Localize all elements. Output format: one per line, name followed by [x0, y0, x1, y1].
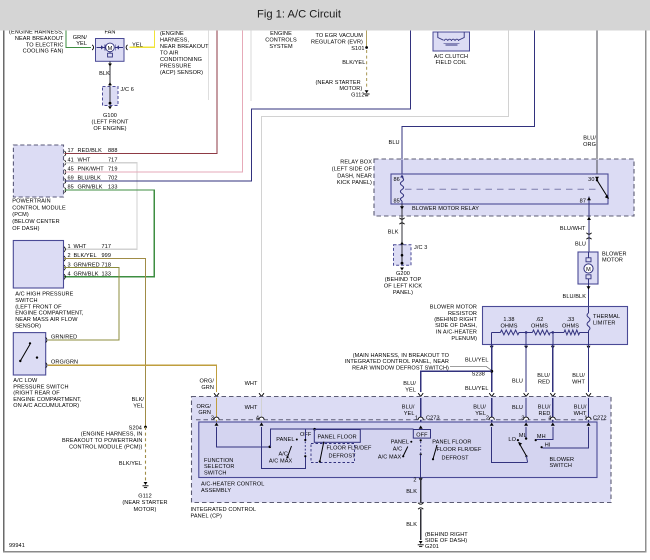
svg-text:TO EGR VACUUM: TO EGR VACUUM — [315, 33, 363, 39]
svg-text:BREAKOUT TO POWERTRAIN: BREAKOUT TO POWERTRAIN — [62, 438, 142, 444]
wire BLU stub inside relay box — [401, 160, 403, 175]
svg-text:NEAR MASS AIR FLOW: NEAR MASS AIR FLOW — [15, 317, 78, 323]
relay internal dashed link — [405, 188, 596, 190]
svg-text:MOTOR): MOTOR) — [339, 86, 362, 92]
svg-text:J/C 6: J/C 6 — [121, 87, 134, 93]
PCM pin 69 BLU/BLK 702 — [65, 178, 66, 183]
svg-text:HARNESS,: HARNESS, — [160, 38, 189, 44]
wire WHT 717 PCM 41 to HPS 1 — [65, 163, 138, 250]
svg-text:BLU/YEL: BLU/YEL — [465, 358, 488, 364]
resistor R3 .33 ohms — [564, 330, 580, 335]
svg-text:86: 86 — [394, 177, 400, 183]
svg-text:99941: 99941 — [9, 543, 25, 549]
junction block J/C 3 — [394, 245, 412, 266]
wire BLK/YEL dashed to G112 — [145, 427, 147, 481]
svg-text:WHT: WHT — [245, 381, 258, 387]
svg-text:NEAR BREAKOUT: NEAR BREAKOUT — [15, 36, 64, 42]
svg-text:BLOWER: BLOWER — [602, 251, 627, 257]
svg-text:BLU/: BLU/ — [538, 405, 551, 411]
svg-text:BLU/YEL: BLU/YEL — [465, 386, 488, 392]
svg-text:4: 4 — [256, 415, 259, 421]
svg-text:SYSTEM: SYSTEM — [269, 44, 293, 50]
svg-text:2: 2 — [486, 415, 489, 421]
page right border — [645, 31, 647, 553]
integrated control panel (ICP) dashed box — [192, 397, 612, 503]
svg-text:INTEGRATED CONTROL: INTEGRATED CONTROL — [191, 507, 257, 513]
svg-text:A/C: A/C — [393, 446, 403, 452]
bus junction nodes — [525, 331, 528, 334]
A/C-heater control assembly box — [199, 422, 597, 478]
svg-text:C273: C273 — [426, 415, 440, 421]
svg-text:KICK PANEL): KICK PANEL) — [337, 180, 372, 186]
wire BLU/RED resistor tap3 to ICP pin 4 — [552, 345, 554, 393]
svg-text:A/C LOW: A/C LOW — [13, 378, 38, 384]
selector 2 OFF box — [413, 430, 430, 439]
svg-text:A/C MAX: A/C MAX — [269, 459, 293, 465]
svg-text:BLU/: BLU/ — [402, 405, 415, 411]
svg-text:A/C HIGH PRESSURE: A/C HIGH PRESSURE — [15, 292, 73, 298]
ground G200 — [400, 268, 404, 271]
svg-text:85: 85 — [394, 199, 400, 205]
PCM pin 85 GRN/BLK 133 — [65, 187, 66, 192]
svg-text:THERMAL: THERMAL — [593, 314, 620, 320]
wire BLK relay 85 to J/C 3 — [401, 204, 403, 245]
svg-text:C272: C272 — [593, 415, 607, 421]
svg-text:ASSEMBLY: ASSEMBLY — [201, 488, 231, 494]
svg-text:BLU/: BLU/ — [537, 373, 550, 379]
svg-text:RELAY BOX: RELAY BOX — [340, 160, 372, 166]
svg-text:J/C 3: J/C 3 — [414, 245, 427, 251]
svg-text:S238: S238 — [472, 372, 485, 378]
svg-text:BLU/BLK: BLU/BLK — [563, 294, 587, 300]
ground G201 — [419, 541, 423, 544]
resistor bus — [492, 331, 501, 333]
svg-text:GRN/RED: GRN/RED — [51, 334, 77, 340]
svg-text:DEFROST: DEFROST — [442, 456, 470, 462]
wire BLU/BLK blower motor to resistor — [588, 284, 590, 307]
wire WHT return path — [262, 427, 306, 469]
connector pin bumps — [214, 417, 219, 420]
svg-text:YEL: YEL — [475, 411, 486, 417]
page bottom border — [3, 551, 646, 553]
svg-text:LO: LO — [508, 437, 516, 443]
wire BLU/WHT thermal limiter to ICP pin 1 C272 — [588, 345, 590, 393]
svg-text:LIMITER: LIMITER — [593, 320, 616, 326]
svg-text:1.38: 1.38 — [503, 317, 514, 323]
relay coil — [400, 175, 404, 178]
ORG/GRN entry mark at ICP — [214, 393, 219, 396]
PCM pin 17 RED/BLK 888 — [65, 151, 66, 156]
relay pin 87 stub — [588, 197, 590, 205]
svg-text:G100: G100 — [103, 113, 117, 119]
wire BLK/YEL 999 HPS 2 to S204 — [64, 259, 146, 428]
wire BLU/WHT relay 87 to blower motor — [588, 204, 590, 252]
svg-text:BLU/WHT: BLU/WHT — [560, 226, 586, 232]
HPS pin 4 GRN/BLK 133 — [64, 274, 65, 279]
svg-text:TO AIR: TO AIR — [160, 51, 179, 57]
svg-text:OF DASH): OF DASH) — [12, 226, 39, 232]
svg-text:BLU/: BLU/ — [403, 381, 416, 387]
PCM pin 41 WHT 717 — [65, 160, 66, 165]
svg-text:WHT: WHT — [245, 405, 258, 411]
svg-text:BLU/: BLU/ — [583, 136, 596, 142]
svg-text:A/C: A/C — [278, 451, 288, 457]
blower motor — [578, 252, 598, 284]
svg-text:POWERTRAIN: POWERTRAIN — [12, 199, 50, 205]
svg-text:IN A/C-HEATER: IN A/C-HEATER — [436, 330, 477, 336]
blue wires into assembly — [420, 398, 422, 422]
svg-text:(BEHIND RIGHT: (BEHIND RIGHT — [425, 532, 468, 538]
svg-text:BLK: BLK — [406, 489, 417, 495]
connector break at fan — [92, 45, 93, 50]
svg-text:PANEL): PANEL) — [393, 290, 413, 296]
svg-text:(RIGHT REAR OF: (RIGHT REAR OF — [13, 391, 60, 397]
fan motor symbol M1 — [97, 46, 105, 48]
HPS pin 3 GRN/RED 718 — [64, 265, 65, 270]
svg-text:GRN/: GRN/ — [73, 35, 88, 41]
svg-text:.33: .33 — [567, 317, 575, 323]
svg-text:BLOWER: BLOWER — [550, 457, 575, 463]
wire ORG/GRN to selector common — [217, 427, 270, 447]
resistor R1 1.38 ohms — [500, 330, 519, 335]
svg-text:A/C CLUTCH: A/C CLUTCH — [434, 54, 468, 60]
resistor tap stubs — [491, 332, 493, 344]
svg-text:BLK: BLK — [99, 71, 110, 77]
svg-text:SIDE OF DASH,: SIDE OF DASH, — [435, 323, 477, 329]
wire BLU/ORG stub inside relay box — [596, 160, 598, 175]
wire BLK/YEL dashed to G112 — [366, 50, 368, 89]
svg-text:(ACP) SENSOR): (ACP) SENSOR) — [160, 70, 203, 76]
selector top rail — [271, 429, 414, 447]
svg-text:2: 2 — [413, 477, 416, 483]
svg-text:ENGINE: ENGINE — [270, 31, 292, 37]
svg-text:SWITCH: SWITCH — [15, 298, 37, 304]
svg-text:CONTROL MODULE (PCM)): CONTROL MODULE (PCM)) — [69, 444, 143, 450]
wire GRN/BLK 133 PCM 85 to HPS 4 — [64, 190, 154, 277]
svg-text:(BEHIND RIGHT: (BEHIND RIGHT — [434, 317, 477, 323]
svg-text:(LEFT FRONT OF: (LEFT FRONT OF — [15, 304, 62, 310]
svg-text:PANEL: PANEL — [391, 439, 409, 445]
blower motor resistor box — [483, 307, 628, 345]
wire BLU/YEL resistor tap1 to S238 and ICP pin 2 — [491, 345, 493, 393]
svg-text:GRN: GRN — [201, 385, 214, 391]
svg-text:YEL: YEL — [133, 403, 144, 409]
svg-text:SENSOR): SENSOR) — [15, 324, 41, 330]
svg-text:4: 4 — [68, 272, 71, 278]
svg-text:PANEL (CP): PANEL (CP) — [191, 514, 222, 520]
wire ORG/GRN into assembly — [216, 398, 218, 422]
relay box dashed — [374, 159, 634, 216]
svg-text:RED: RED — [538, 379, 550, 385]
svg-text:BLOWER MOTOR RELAY: BLOWER MOTOR RELAY — [412, 206, 479, 212]
wire PNK/WHT 719 from PCM 45 — [65, 31, 243, 173]
svg-text:G112: G112 — [138, 494, 152, 500]
ICP connector strip C273/C272 dashed line — [196, 419, 607, 421]
svg-text:PRESSURE: PRESSURE — [160, 64, 191, 70]
svg-text:BLK: BLK — [388, 230, 399, 236]
svg-text:ORG: ORG — [583, 142, 596, 148]
svg-text:(ENGINE: (ENGINE — [160, 31, 184, 37]
svg-text:GRN: GRN — [198, 410, 211, 416]
svg-text:30: 30 — [588, 177, 594, 183]
svg-text:OHMS: OHMS — [500, 323, 517, 329]
HPS pin 2 BLK/YEL 999 — [64, 256, 65, 261]
svg-text:3: 3 — [211, 415, 214, 421]
fan motor box — [96, 39, 125, 62]
ground G112 EGR branch — [365, 90, 369, 93]
svg-text:OFF: OFF — [300, 432, 312, 438]
svg-text:ORG/GRN: ORG/GRN — [51, 359, 78, 365]
selector 1 floor arm — [320, 442, 324, 462]
wire BLU/BLK 702 from PCM 69 — [65, 31, 411, 182]
svg-text:DEFROST: DEFROST — [329, 453, 357, 459]
svg-text:BLU/: BLU/ — [473, 405, 486, 411]
svg-text:ORG/: ORG/ — [196, 404, 211, 410]
title bar overlay — [0, 0, 650, 31]
PCM pin 45 PNK/WHT 719 — [65, 169, 66, 174]
svg-text:CONTROLS: CONTROLS — [265, 38, 297, 44]
svg-text:133: 133 — [102, 272, 112, 278]
svg-text:BLK: BLK — [406, 522, 417, 528]
svg-text:BLU: BLU — [389, 140, 400, 146]
wire BLU/YEL branch to ICP pin 1 C273 — [421, 371, 492, 392]
svg-text:M: M — [586, 267, 591, 273]
svg-text:PANEL FLOOR: PANEL FLOOR — [432, 439, 471, 445]
svg-text:CONDITIONING: CONDITIONING — [160, 57, 202, 63]
svg-text:BLU: BLU — [575, 241, 586, 247]
blower motor relay — [391, 174, 608, 204]
svg-text:Fig 1: A/C Circuit: Fig 1: A/C Circuit — [257, 9, 342, 21]
wire WHT 717 overhead run to ICP pin 4 — [262, 31, 509, 393]
svg-text:1: 1 — [415, 415, 418, 421]
svg-text:G200: G200 — [396, 271, 410, 277]
svg-text:(PCM): (PCM) — [12, 212, 29, 218]
svg-text:RESISTOR: RESISTOR — [448, 311, 477, 317]
svg-text:BLOWER MOTOR: BLOWER MOTOR — [430, 305, 477, 311]
svg-text:TO ELECTRIC: TO ELECTRIC — [26, 42, 64, 48]
svg-text:ORG/: ORG/ — [199, 379, 214, 385]
svg-text:G201: G201 — [425, 544, 439, 550]
svg-text:OHMS: OHMS — [531, 323, 548, 329]
svg-text:PRESSURE SWITCH: PRESSURE SWITCH — [13, 384, 68, 390]
svg-text:PANEL FLOOR: PANEL FLOOR — [318, 435, 357, 441]
svg-text:BLU/: BLU/ — [574, 405, 587, 411]
svg-text:A/C-HEATER CONTROL: A/C-HEATER CONTROL — [201, 482, 264, 488]
svg-text:SWITCH: SWITCH — [204, 471, 226, 477]
svg-text:INTEGRATED CONTROL PANEL, NEAR: INTEGRATED CONTROL PANEL, NEAR — [345, 359, 449, 365]
svg-text:G112: G112 — [351, 92, 365, 98]
svg-text:1: 1 — [68, 244, 71, 250]
svg-text:FUNCTION: FUNCTION — [204, 458, 233, 464]
svg-text:S101: S101 — [351, 46, 364, 52]
LPS pin connectors — [46, 337, 47, 342]
svg-text:PLENUM): PLENUM) — [451, 336, 477, 342]
svg-text:BLK/YEL: BLK/YEL — [119, 461, 142, 467]
floor options dashed box — [311, 444, 355, 463]
svg-text:87: 87 — [580, 199, 586, 205]
wire WHT into assembly — [261, 398, 263, 422]
splice S238 leader — [450, 366, 491, 370]
svg-text:OF ENGINE): OF ENGINE) — [93, 126, 126, 132]
thermal limiter — [588, 307, 590, 314]
WHT entry mark at ICP — [259, 393, 264, 396]
svg-text:(ENGINE HARNESS, IN: (ENGINE HARNESS, IN — [81, 432, 143, 438]
resistor R2 .62 ohms — [532, 330, 550, 335]
junction block J/C 6 — [103, 87, 119, 106]
svg-text:COOLING FAN): COOLING FAN) — [23, 49, 64, 55]
relay switch contact 30-87 — [595, 177, 599, 180]
wire BLK selector 2 to pin 2 — [420, 454, 422, 477]
svg-text:OFF: OFF — [416, 432, 428, 438]
wire ORG/GRN LPS to ICP pin 3 — [48, 365, 217, 392]
wire BLK fan to J/C 6 — [109, 61, 111, 86]
A/C clutch field coil — [433, 32, 470, 51]
svg-text:OF LEFT KICK: OF LEFT KICK — [384, 284, 422, 290]
wire GRN/YEL to fan — [66, 31, 91, 48]
svg-text:.62: .62 — [536, 317, 544, 323]
svg-text:ENGINE COMPARTMENT,: ENGINE COMPARTMENT, — [13, 397, 82, 403]
svg-text:YEL: YEL — [76, 41, 87, 47]
wire BLU/ORG into relay 30 — [596, 31, 598, 175]
svg-text:WHT: WHT — [572, 379, 585, 385]
faint boundary line 2 — [208, 31, 210, 101]
HPS pin 1 WHT 717 — [64, 247, 65, 252]
svg-text:(NEAR STARTER: (NEAR STARTER — [122, 500, 167, 506]
svg-text:YEL: YEL — [404, 411, 415, 417]
ground G112 near starter motor — [144, 482, 148, 485]
svg-text:(LEFT SIDE OF: (LEFT SIDE OF — [332, 166, 373, 172]
wire BLU into relay 86 — [402, 31, 535, 175]
page left border — [3, 31, 5, 553]
svg-text:(LEFT FRONT: (LEFT FRONT — [92, 119, 129, 125]
svg-text:CONTROL MODULE: CONTROL MODULE — [12, 205, 66, 211]
svg-text:(MAIN HARNESS, IN BREAKOUT TO: (MAIN HARNESS, IN BREAKOUT TO — [353, 353, 450, 359]
svg-text:FLOOR FLR/DEF: FLOOR FLR/DEF — [327, 445, 372, 451]
svg-text:BLK/: BLK/ — [132, 397, 145, 403]
svg-text:A/C MAX: A/C MAX — [378, 455, 402, 461]
svg-text:NEAR BREAKOUT: NEAR BREAKOUT — [160, 44, 209, 50]
A/C high pressure switch — [13, 241, 63, 289]
wire GRN/RED 718 HPS 3 to LPS — [48, 268, 119, 340]
svg-text:BLU: BLU — [512, 379, 523, 385]
svg-text:MOTOR: MOTOR — [602, 258, 623, 264]
splice S101 — [366, 31, 368, 48]
svg-text:REGULATOR (EVR): REGULATOR (EVR) — [311, 39, 363, 45]
svg-text:YEL: YEL — [405, 387, 416, 393]
A/C low pressure switch — [13, 333, 45, 375]
svg-text:ENGINE COMPARTMENT,: ENGINE COMPARTMENT, — [15, 311, 84, 317]
svg-text:OHMS: OHMS — [562, 323, 579, 329]
svg-text:WHT: WHT — [74, 244, 87, 250]
faint boundary line — [250, 31, 252, 102]
svg-text:M: M — [108, 46, 113, 52]
wire BLU resistor tap2 to ICP pin 3 — [525, 345, 527, 393]
svg-text:DASH, NEAR: DASH, NEAR — [337, 173, 372, 179]
svg-text:PANEL: PANEL — [276, 437, 294, 443]
svg-text:FIELD COIL: FIELD COIL — [435, 60, 466, 66]
svg-text:SELECTOR: SELECTOR — [204, 464, 235, 470]
panel floor box — [314, 430, 360, 443]
blower switch common wire — [492, 427, 528, 462]
svg-text:GRN/BLK: GRN/BLK — [74, 272, 99, 278]
ground G100 — [108, 106, 112, 109]
wire BLK ICP to G201 — [420, 478, 422, 503]
svg-text:SWITCH: SWITCH — [550, 463, 572, 469]
svg-text:BLU/: BLU/ — [572, 373, 585, 379]
wire RED/BLK 888 from PCM 17 — [65, 31, 218, 154]
powertrain control module (PCM) — [13, 145, 63, 197]
svg-text:BLU: BLU — [512, 405, 523, 411]
svg-text:(BELOW CENTER: (BELOW CENTER — [12, 219, 59, 225]
svg-text:BLK/YEL: BLK/YEL — [342, 60, 365, 66]
svg-text:FLOOR FLR/DEF: FLOOR FLR/DEF — [437, 447, 482, 453]
LPS switch symbol — [19, 360, 21, 362]
svg-text:MOTOR): MOTOR) — [134, 507, 157, 513]
svg-text:ON A/C ACCUMULATOR): ON A/C ACCUMULATOR) — [13, 403, 79, 409]
svg-text:(BEHIND TOP: (BEHIND TOP — [385, 277, 422, 283]
ICP pin 2 exit — [419, 478, 423, 481]
title bar — [0, 0, 650, 31]
selector 2 floor arm — [433, 445, 437, 459]
wire YEL from fan — [126, 45, 127, 50]
svg-text:717: 717 — [102, 244, 112, 250]
